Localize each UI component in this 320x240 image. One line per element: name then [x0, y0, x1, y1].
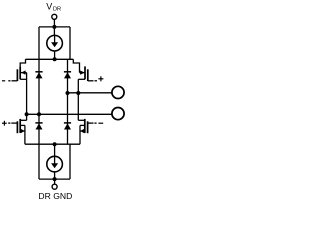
node dot left rail at mosfet	[25, 112, 29, 116]
wire bottom rect rail	[39, 178, 70, 180]
node VDR label	[46, 1, 61, 12]
wire right node rail to upper output	[68, 92, 113, 94]
diode D3 bottom-left	[35, 114, 42, 144]
svg-text:DR: DR	[53, 7, 61, 13]
svg-text:DR GND: DR GND	[38, 191, 72, 201]
terminal DR GND	[52, 184, 57, 189]
wire left node rail to lower output	[27, 113, 112, 115]
transistor Q2 top-right MOSFET	[73, 59, 97, 93]
svg-text:V: V	[46, 1, 52, 11]
wire left rect vertical bottom	[38, 144, 40, 179]
current source I2	[47, 156, 63, 172]
current source I1	[47, 35, 63, 51]
node dot left rail at diode	[37, 112, 41, 116]
wire I2 to bottom rect rail	[54, 172, 56, 179]
node label plus Q3	[2, 121, 7, 126]
wire right rect vertical bottom	[69, 144, 71, 179]
node label minus Q1	[2, 80, 5, 82]
wire bridge top rail	[26, 58, 74, 60]
diode D1 top-left	[35, 72, 42, 79]
node dot right rail at mosfet	[76, 91, 80, 95]
wire into current source I2	[54, 144, 56, 156]
wire bridge bottom rail	[25, 143, 80, 145]
terminal VDR	[52, 14, 57, 19]
transistor Q1 top-left MOSFET	[8, 59, 26, 114]
wire top rect rail	[39, 26, 70, 28]
node dot bottom rail center	[53, 142, 57, 146]
node junction dot on bridge top rail	[53, 57, 57, 61]
diode D2 top-right	[64, 59, 71, 144]
wire I1 to bridge top rail	[54, 51, 56, 59]
node label minus Q4	[98, 122, 103, 124]
node junction dot top	[52, 25, 56, 29]
wire left rect vertical and D1 leg	[38, 27, 40, 114]
transistor Q3 bottom-left MOSFET	[8, 114, 26, 144]
terminal output upper	[112, 86, 124, 98]
node dot right rail at diode	[66, 91, 70, 95]
terminal output lower	[112, 108, 124, 120]
wire into current source I1	[53, 27, 55, 35]
transistor Q4 bottom-right MOSFET	[78, 93, 96, 144]
node junction dot bottom	[53, 177, 57, 181]
wire VDR to top rect rail	[53, 19, 55, 27]
wire right rect vertical top	[69, 27, 71, 59]
diode D4 bottom-right	[64, 123, 71, 130]
node label plus Q2	[98, 76, 103, 81]
wire to DR GND terminal	[54, 179, 56, 184]
